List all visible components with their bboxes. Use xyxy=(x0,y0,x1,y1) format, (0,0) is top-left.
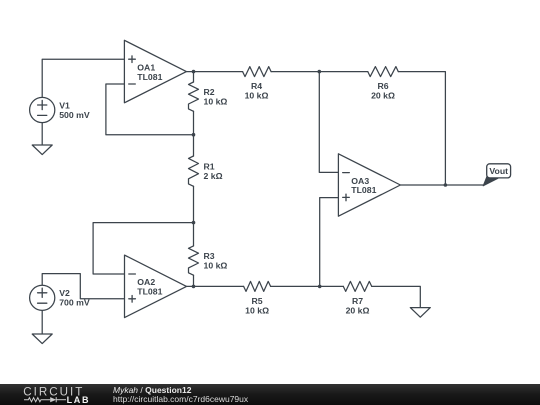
svg-text:500 mV: 500 mV xyxy=(59,110,90,120)
svg-text:R4: R4 xyxy=(251,81,262,91)
svg-text:2 kΩ: 2 kΩ xyxy=(204,171,223,181)
svg-text:10 kΩ: 10 kΩ xyxy=(204,261,228,271)
svg-text:R7: R7 xyxy=(352,296,363,306)
svg-text:R2: R2 xyxy=(204,87,215,97)
svg-text:TL081: TL081 xyxy=(137,72,162,82)
svg-text:TL081: TL081 xyxy=(137,287,162,297)
svg-text:R6: R6 xyxy=(377,81,388,91)
svg-text:Vout: Vout xyxy=(489,166,508,176)
svg-text:LAB: LAB xyxy=(67,395,91,405)
svg-text:R3: R3 xyxy=(204,251,215,261)
svg-text:V1: V1 xyxy=(59,100,70,110)
svg-text:OA2: OA2 xyxy=(137,277,155,287)
svg-text:700 mV: 700 mV xyxy=(59,298,90,308)
svg-text:V2: V2 xyxy=(59,288,70,298)
svg-text:TL081: TL081 xyxy=(351,185,376,195)
svg-text:10 kΩ: 10 kΩ xyxy=(245,306,269,316)
svg-text:10 kΩ: 10 kΩ xyxy=(245,91,269,101)
svg-text:R5: R5 xyxy=(252,296,263,306)
svg-text:20 kΩ: 20 kΩ xyxy=(371,91,395,101)
svg-text:OA1: OA1 xyxy=(137,62,155,72)
svg-text:20 kΩ: 20 kΩ xyxy=(346,306,370,316)
svg-text:10 kΩ: 10 kΩ xyxy=(204,96,228,106)
svg-text:R1: R1 xyxy=(204,161,215,171)
